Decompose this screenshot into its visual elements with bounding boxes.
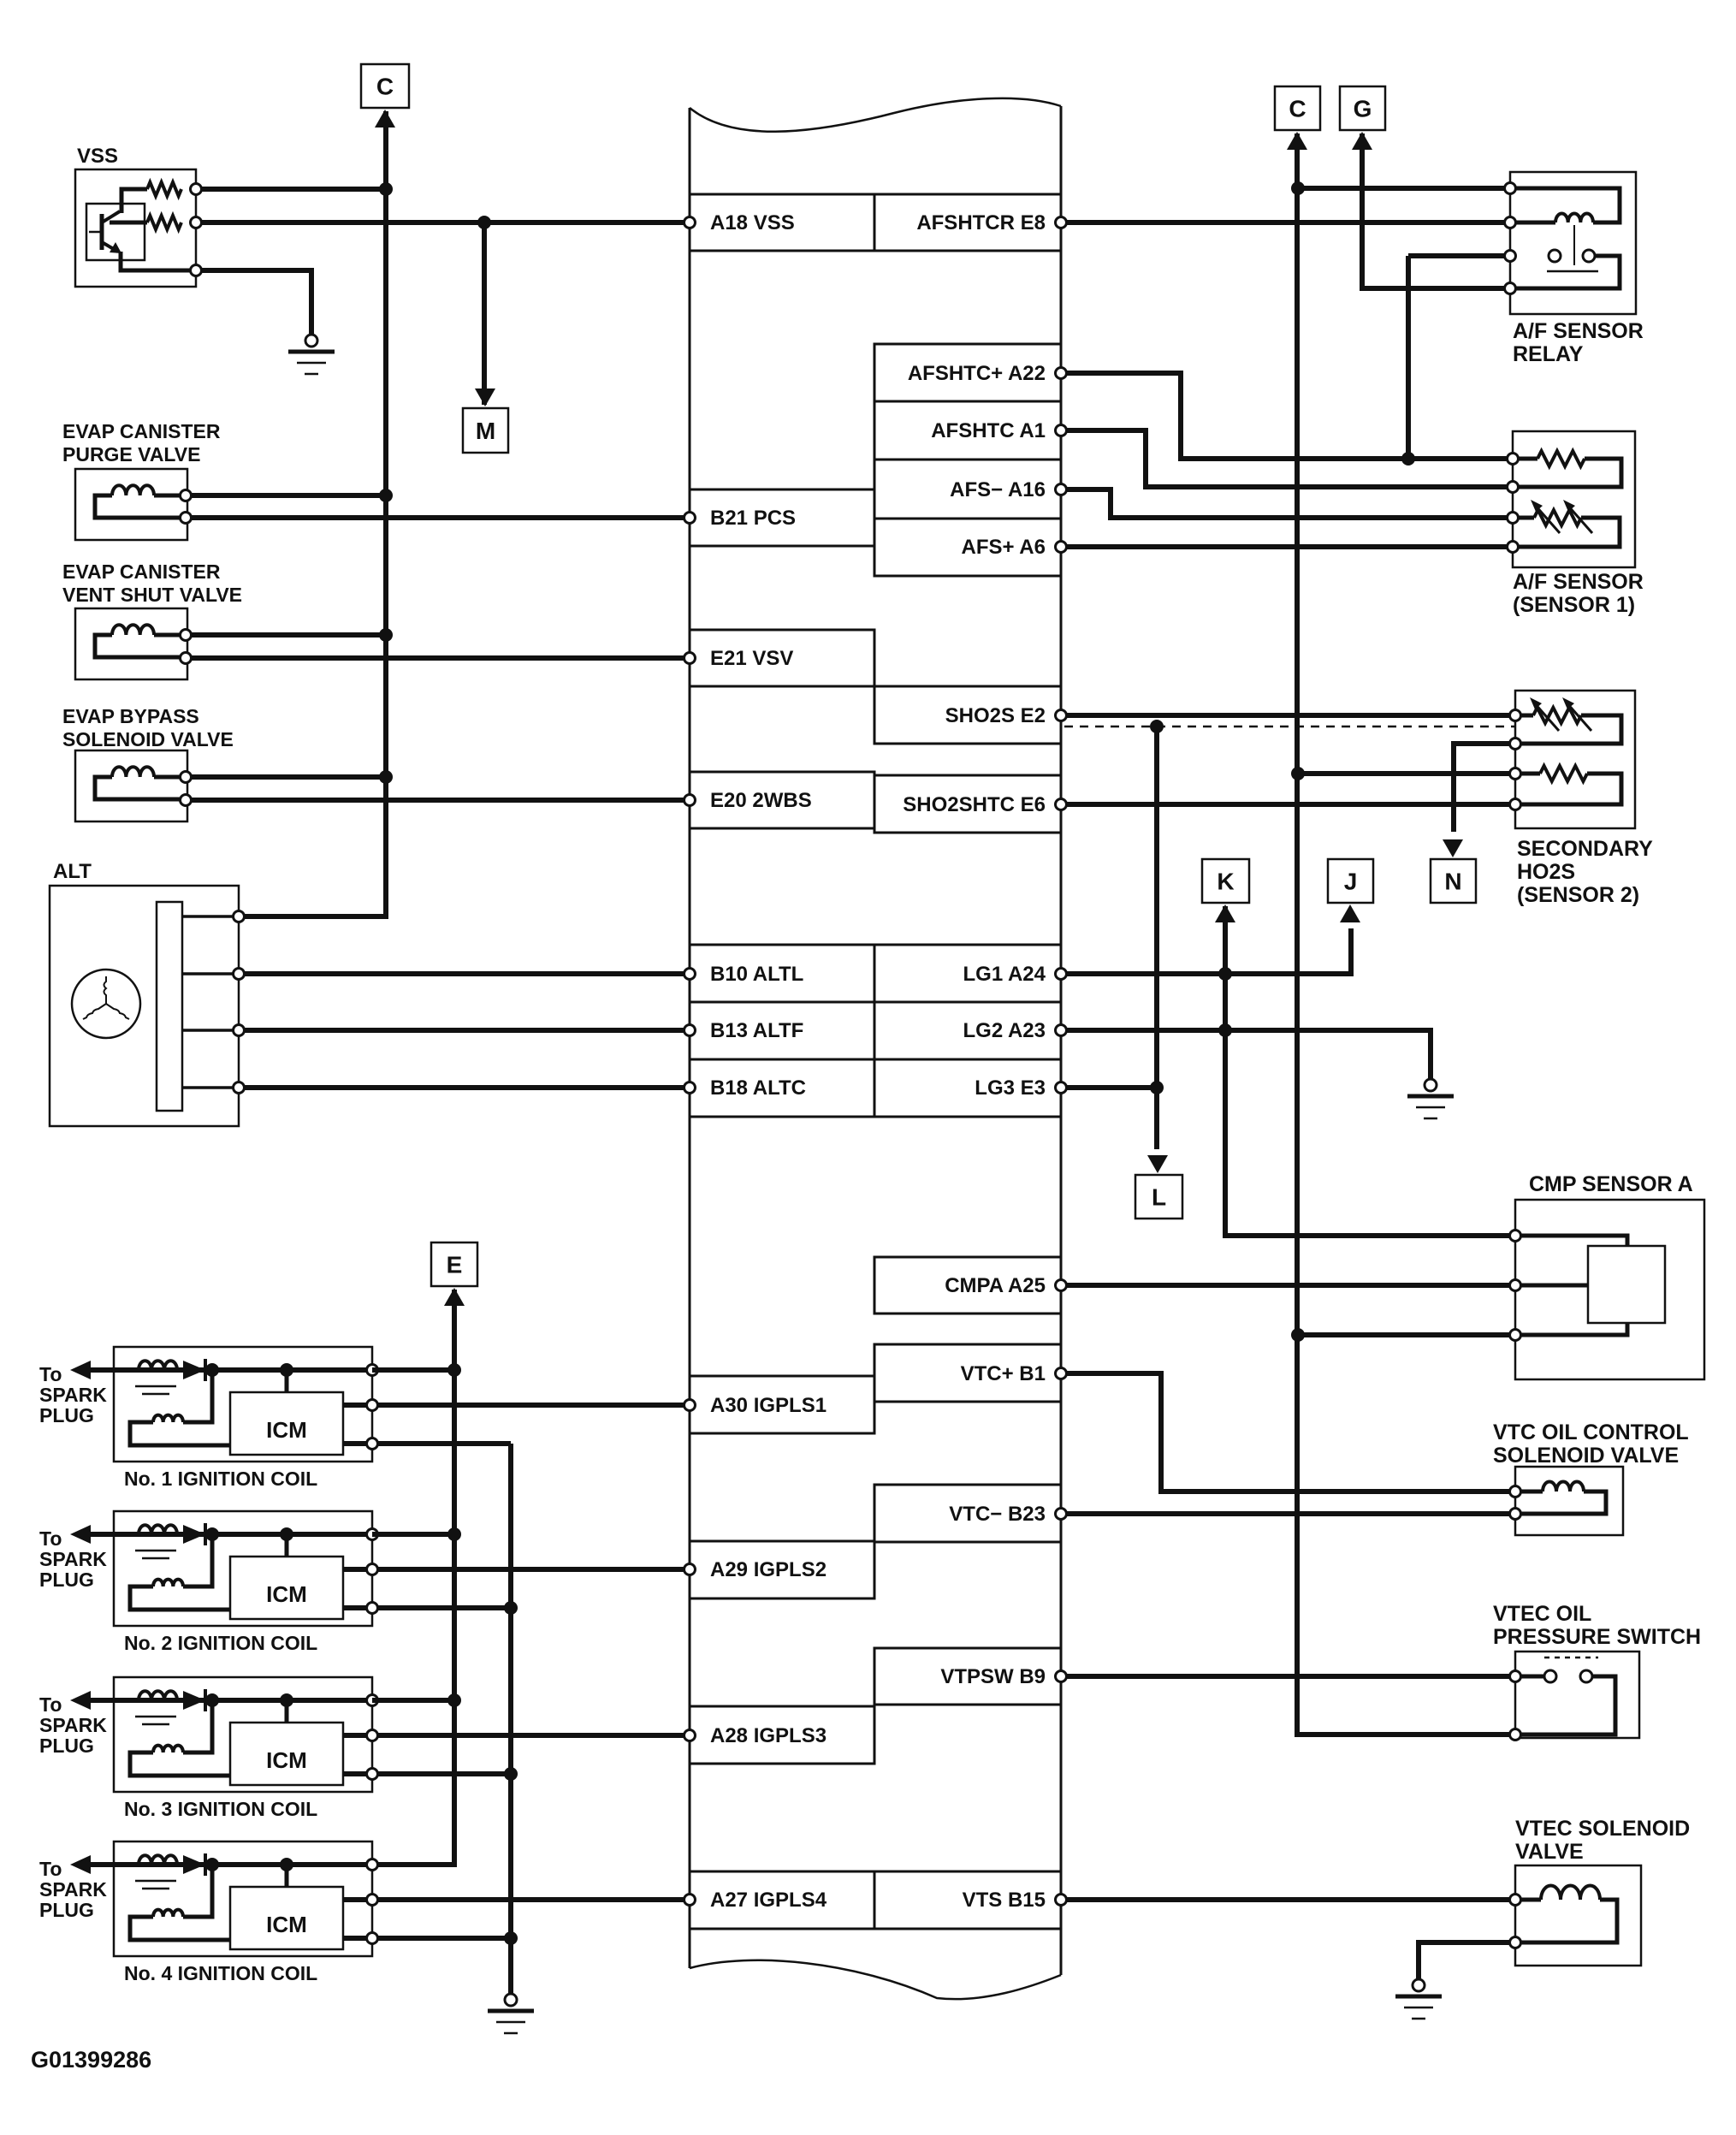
- svg-text:VTC+ B1: VTC+ B1: [961, 1362, 1046, 1385]
- svg-text:A27 IGPLS4: A27 IGPLS4: [710, 1889, 827, 1912]
- svg-text:A28 IGPLS3: A28 IGPLS3: [710, 1724, 827, 1747]
- svg-text:VTEC OIL: VTEC OIL: [1493, 1602, 1591, 1626]
- svg-text:To: To: [39, 1693, 62, 1716]
- svg-text:SPARK: SPARK: [39, 1384, 107, 1406]
- svg-text:PRESSURE SWITCH: PRESSURE SWITCH: [1493, 1625, 1701, 1649]
- svg-text:PURGE VALVE: PURGE VALVE: [62, 443, 200, 466]
- svg-text:VTC OIL CONTROL: VTC OIL CONTROL: [1493, 1420, 1689, 1444]
- svg-text:VALVE: VALVE: [1515, 1840, 1584, 1864]
- svg-text:No. 2 IGNITION COIL: No. 2 IGNITION COIL: [124, 1632, 317, 1654]
- svg-text:SOLENOID VALVE: SOLENOID VALVE: [1493, 1444, 1679, 1468]
- svg-text:B10 ALTL: B10 ALTL: [710, 963, 803, 986]
- svg-text:SECONDARY: SECONDARY: [1517, 837, 1653, 861]
- svg-text:E20 2WBS: E20 2WBS: [710, 789, 812, 812]
- svg-text:N: N: [1444, 869, 1461, 895]
- svg-text:C: C: [376, 74, 394, 100]
- svg-text:ICM: ICM: [266, 1581, 307, 1607]
- svg-text:AFS− A16: AFS− A16: [950, 478, 1046, 501]
- svg-text:(SENSOR 1): (SENSOR 1): [1513, 593, 1635, 617]
- svg-text:ALT: ALT: [53, 860, 92, 883]
- svg-text:CMPA A25: CMPA A25: [945, 1274, 1046, 1297]
- svg-text:No. 4 IGNITION COIL: No. 4 IGNITION COIL: [124, 1962, 317, 1984]
- svg-text:AFSHTCR E8: AFSHTCR E8: [916, 211, 1046, 234]
- svg-text:SPARK: SPARK: [39, 1714, 107, 1736]
- svg-text:L: L: [1152, 1184, 1166, 1211]
- svg-text:VTS B15: VTS B15: [963, 1889, 1046, 1912]
- svg-text:VTPSW B9: VTPSW B9: [940, 1665, 1046, 1688]
- svg-text:To: To: [39, 1858, 62, 1880]
- svg-text:RELAY: RELAY: [1513, 342, 1584, 366]
- svg-text:ICM: ICM: [266, 1912, 307, 1937]
- svg-text:SPARK: SPARK: [39, 1548, 107, 1570]
- svg-text:ICM: ICM: [266, 1747, 307, 1773]
- svg-text:LG2 A23: LG2 A23: [963, 1019, 1046, 1042]
- svg-text:B13 ALTF: B13 ALTF: [710, 1019, 803, 1042]
- svg-text:C: C: [1289, 96, 1306, 122]
- svg-text:VSS: VSS: [77, 145, 118, 168]
- svg-text:(SENSOR 2): (SENSOR 2): [1517, 883, 1639, 907]
- svg-text:CMP SENSOR A: CMP SENSOR A: [1529, 1172, 1693, 1196]
- svg-text:VTC− B23: VTC− B23: [949, 1503, 1046, 1526]
- svg-text:PLUG: PLUG: [39, 1404, 94, 1426]
- svg-text:AFSHTC A1: AFSHTC A1: [931, 419, 1046, 442]
- svg-text:B18 ALTC: B18 ALTC: [710, 1076, 806, 1100]
- svg-text:A29 IGPLS2: A29 IGPLS2: [710, 1558, 827, 1581]
- svg-text:PLUG: PLUG: [39, 1569, 94, 1591]
- svg-text:SPARK: SPARK: [39, 1878, 107, 1901]
- svg-text:VTEC SOLENOID: VTEC SOLENOID: [1515, 1817, 1690, 1841]
- svg-text:M: M: [476, 418, 495, 444]
- svg-text:J: J: [1344, 869, 1358, 895]
- svg-text:E21 VSV: E21 VSV: [710, 647, 793, 670]
- svg-text:G01399286: G01399286: [31, 2047, 151, 2073]
- svg-text:A/F SENSOR: A/F SENSOR: [1513, 570, 1644, 594]
- svg-text:G: G: [1354, 96, 1372, 122]
- svg-text:SHO2S E2: SHO2S E2: [945, 704, 1046, 727]
- svg-text:VENT SHUT VALVE: VENT SHUT VALVE: [62, 584, 242, 606]
- svg-text:To: To: [39, 1527, 62, 1550]
- svg-text:EVAP BYPASS: EVAP BYPASS: [62, 705, 199, 727]
- svg-text:No. 1 IGNITION COIL: No. 1 IGNITION COIL: [124, 1468, 317, 1490]
- svg-text:AFSHTC+ A22: AFSHTC+ A22: [908, 362, 1046, 385]
- svg-text:A30 IGPLS1: A30 IGPLS1: [710, 1394, 827, 1417]
- svg-text:EVAP CANISTER: EVAP CANISTER: [62, 560, 221, 583]
- svg-text:ICM: ICM: [266, 1417, 307, 1443]
- svg-text:SHO2SHTC E6: SHO2SHTC E6: [903, 793, 1046, 816]
- svg-text:To: To: [39, 1363, 62, 1385]
- svg-text:No. 3 IGNITION COIL: No. 3 IGNITION COIL: [124, 1798, 317, 1820]
- svg-text:PLUG: PLUG: [39, 1899, 94, 1921]
- svg-text:E: E: [447, 1252, 463, 1278]
- svg-text:A/F SENSOR: A/F SENSOR: [1513, 319, 1644, 343]
- svg-text:LG3 E3: LG3 E3: [975, 1076, 1046, 1100]
- svg-text:LG1 A24: LG1 A24: [963, 963, 1046, 986]
- svg-text:EVAP CANISTER: EVAP CANISTER: [62, 420, 221, 442]
- svg-text:A18 VSS: A18 VSS: [710, 211, 795, 234]
- svg-text:HO2S: HO2S: [1517, 860, 1575, 884]
- svg-text:SOLENOID VALVE: SOLENOID VALVE: [62, 728, 234, 750]
- svg-text:AFS+ A6: AFS+ A6: [962, 536, 1046, 559]
- svg-text:B21 PCS: B21 PCS: [710, 507, 796, 530]
- svg-text:PLUG: PLUG: [39, 1735, 94, 1757]
- svg-text:K: K: [1217, 869, 1234, 895]
